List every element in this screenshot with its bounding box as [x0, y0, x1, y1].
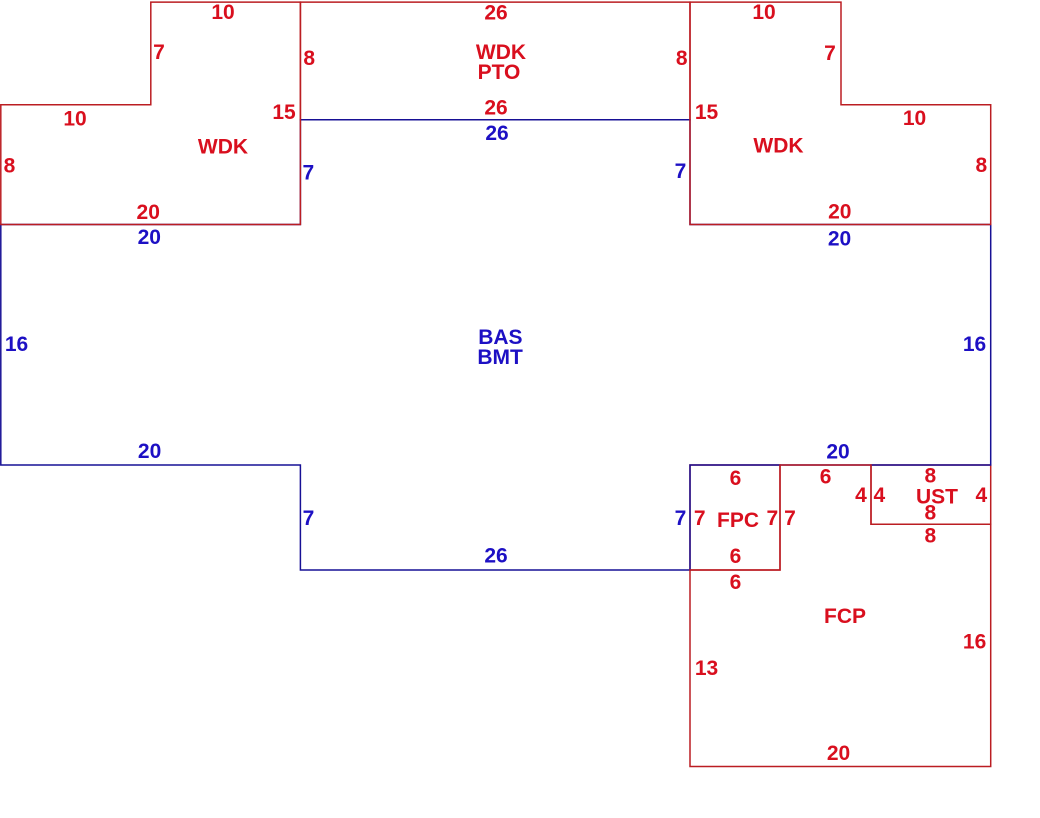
area WDK right outline: [690, 2, 991, 224]
svg-text:4: 4: [975, 484, 987, 507]
svg-text:26: 26: [484, 545, 507, 568]
svg-text:20: 20: [137, 201, 160, 224]
svg-text:15: 15: [695, 101, 719, 124]
svg-text:26: 26: [485, 122, 508, 145]
svg-text:8: 8: [303, 47, 315, 70]
svg-text:20: 20: [138, 226, 161, 249]
svg-text:7: 7: [675, 507, 687, 530]
area WDK left outline: [1, 2, 301, 224]
svg-text:7: 7: [303, 507, 315, 530]
svg-text:8: 8: [975, 154, 987, 177]
svg-text:WDK: WDK: [198, 136, 248, 159]
svg-text:7: 7: [694, 507, 706, 530]
svg-text:UST: UST: [916, 486, 958, 509]
svg-text:4: 4: [874, 484, 886, 507]
svg-text:16: 16: [963, 333, 986, 356]
svg-text:13: 13: [695, 657, 718, 680]
svg-text:20: 20: [138, 440, 161, 463]
svg-text:FCP: FCP: [824, 605, 866, 628]
svg-text:26: 26: [484, 97, 507, 120]
svg-text:7: 7: [153, 41, 165, 64]
svg-text:15: 15: [272, 101, 296, 124]
area UST outline: [871, 465, 991, 524]
area FPC outline: [690, 465, 780, 570]
area FCP outline: [690, 465, 991, 767]
svg-text:WDK: WDK: [753, 135, 803, 158]
svg-text:7: 7: [303, 161, 315, 184]
svg-text:10: 10: [211, 1, 234, 24]
svg-text:6: 6: [730, 571, 742, 594]
svg-text:7: 7: [767, 507, 779, 530]
svg-text:10: 10: [63, 108, 86, 131]
svg-text:BMT: BMT: [477, 346, 523, 369]
svg-text:7: 7: [675, 160, 687, 183]
svg-text:FPC: FPC: [717, 509, 759, 532]
svg-text:20: 20: [828, 200, 851, 223]
svg-text:8: 8: [925, 502, 937, 525]
svg-text:16: 16: [5, 333, 28, 356]
svg-text:20: 20: [827, 742, 850, 765]
svg-text:16: 16: [963, 631, 986, 654]
svg-text:6: 6: [730, 467, 742, 490]
svg-text:10: 10: [752, 1, 775, 24]
svg-text:7: 7: [784, 507, 796, 530]
svg-text:6: 6: [820, 465, 832, 488]
svg-text:4: 4: [855, 484, 867, 507]
area BAS BMT outline: [1, 120, 991, 570]
area WDK PTO outline: [300, 2, 690, 120]
svg-text:10: 10: [903, 107, 926, 130]
svg-text:26: 26: [484, 2, 507, 25]
svg-text:20: 20: [828, 228, 851, 251]
svg-text:20: 20: [826, 441, 849, 464]
svg-text:7: 7: [824, 42, 836, 65]
svg-text:6: 6: [730, 545, 742, 568]
svg-text:8: 8: [676, 47, 688, 70]
svg-text:8: 8: [925, 465, 937, 488]
svg-text:PTO: PTO: [478, 61, 521, 84]
svg-text:8: 8: [4, 154, 16, 177]
svg-text:8: 8: [925, 525, 937, 548]
